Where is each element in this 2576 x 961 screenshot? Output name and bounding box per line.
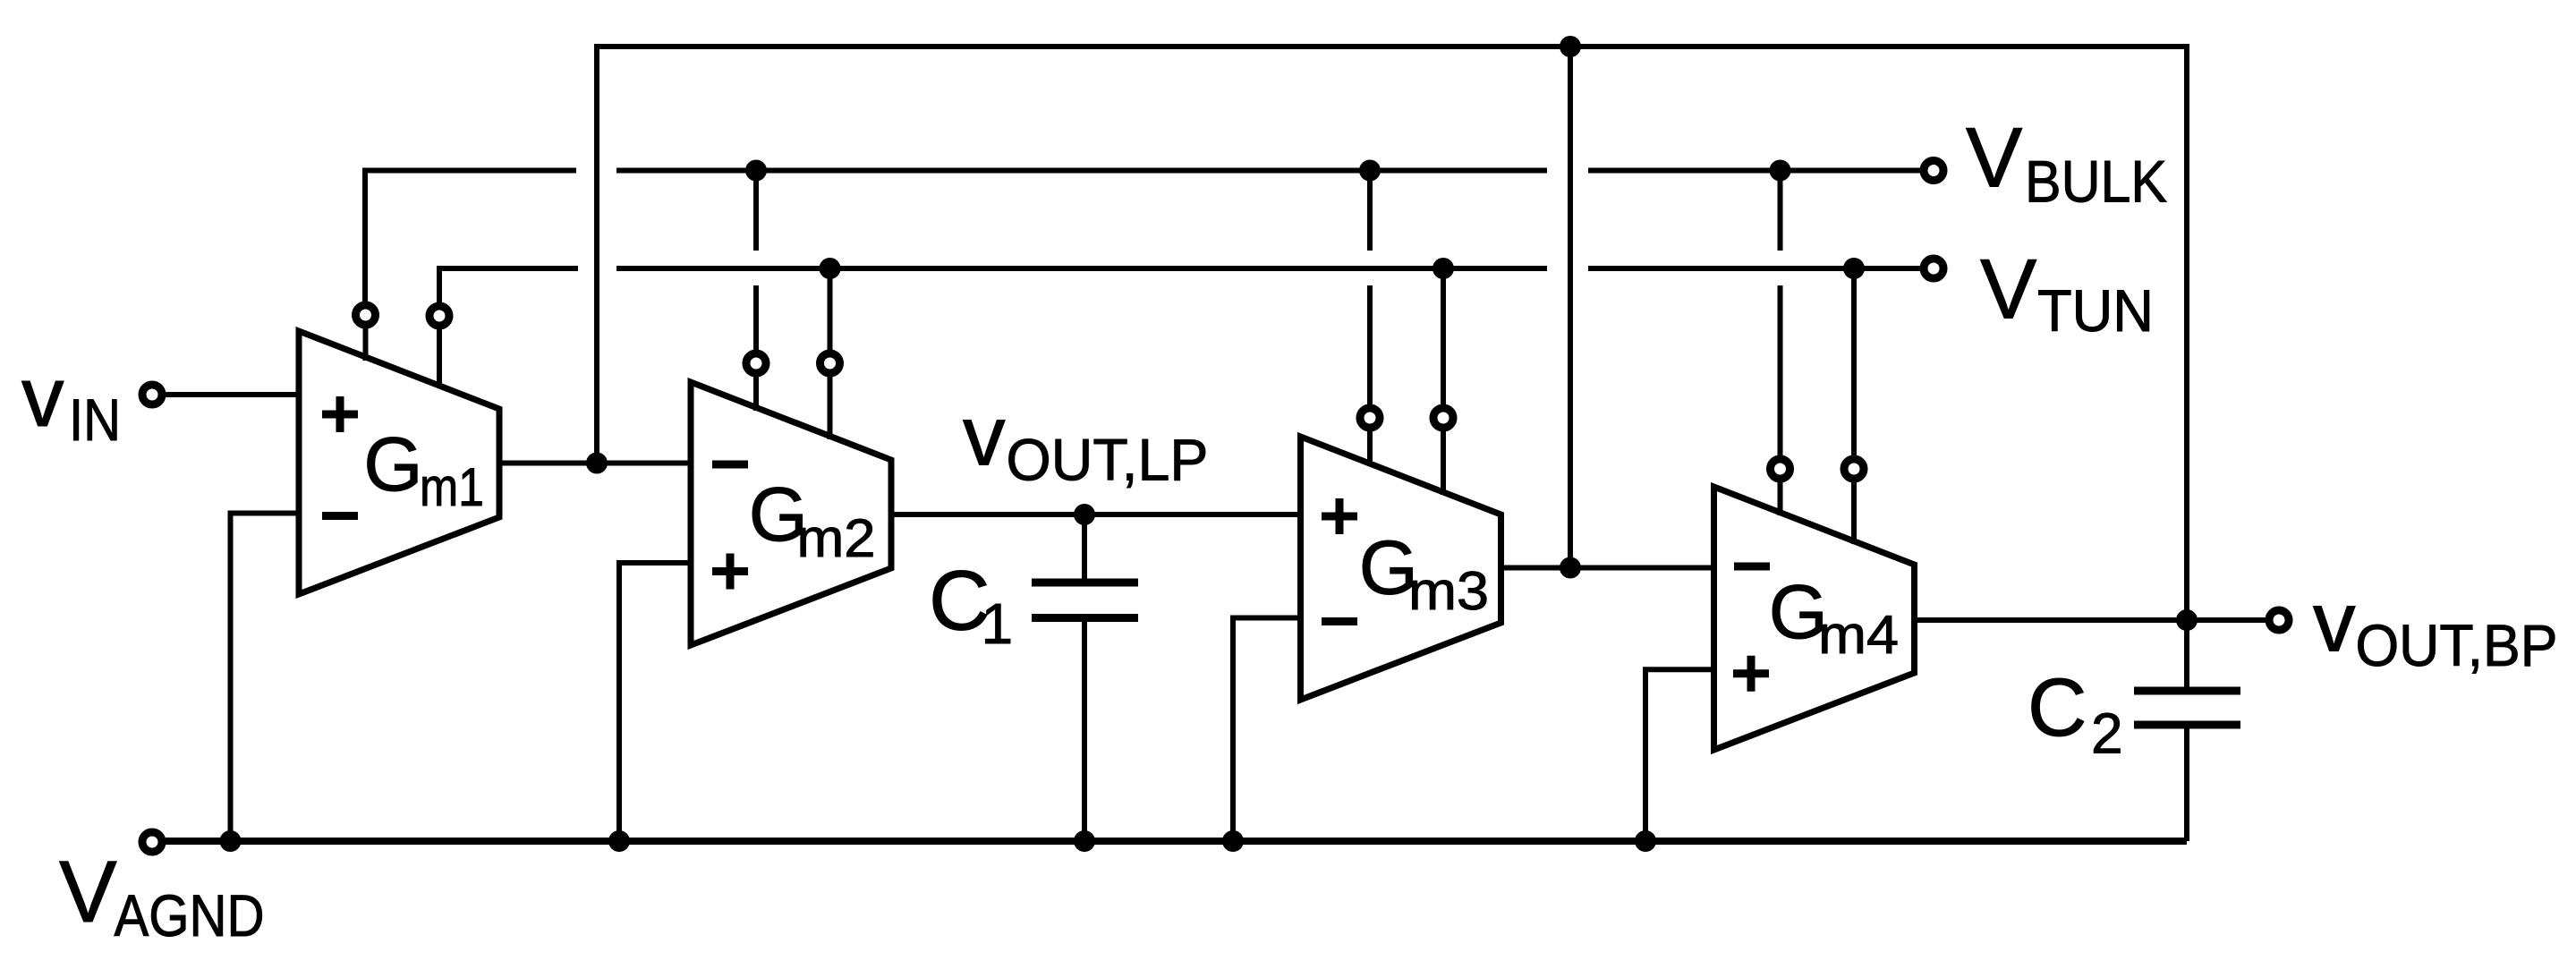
svg-text:TUN: TUN — [2037, 277, 2154, 344]
Gm3 - input mark — [1322, 617, 1357, 625]
wire: Gm4 tune pin riser from VTUN — [1851, 268, 1857, 471]
junction: VBULK / Gm3 bulk riser — [1359, 160, 1381, 182]
Gm4 bulk pin circle — [1771, 459, 1790, 479]
Gm1 bulk pin circle — [356, 305, 376, 325]
junction: top line to Gm3 output riser — [1560, 36, 1581, 57]
svg-text:v: v — [963, 389, 1006, 484]
wire: Gm4 + input feedback from VAGND bus — [1645, 669, 1716, 841]
Gm4 tune pin circle — [1844, 459, 1864, 479]
svg-text:V: V — [1980, 242, 2036, 337]
svg-text:1: 1 — [982, 591, 1014, 656]
terminal: VAGND — [142, 832, 162, 852]
Gm2 + input mark — [712, 554, 748, 590]
wire: Gm2 + input feedback from VAGND bus — [619, 563, 693, 841]
wire: Gm2 tune pin riser from VTUN — [828, 268, 833, 364]
Gm3 tune pin circle — [1433, 408, 1453, 428]
wire: VBULK bus (y=190.5) with hops at x=667 and x=1755 — [365, 171, 1920, 317]
wire: top feedback line from node vOUT,BP to Gm1 output — [597, 47, 2187, 620]
Gm4 - input mark — [1734, 563, 1770, 571]
junction: VTUN / Gm4 tune riser — [1843, 258, 1865, 279]
junction: VTUN / Gm2 tune riser — [820, 258, 841, 279]
svg-text:m2: m2 — [797, 508, 876, 568]
svg-text:m1: m1 — [420, 457, 484, 517]
svg-text:v: v — [2313, 575, 2356, 670]
wire: Gm4 output to vOUT,BP terminal — [1915, 617, 2266, 623]
Gm1 - input mark — [322, 512, 358, 520]
Gm2 bulk pin circle — [746, 353, 766, 373]
Gm2 tune pin circle — [820, 353, 840, 373]
wire: VAGND bottom bus — [166, 838, 2187, 845]
svg-text:AGND: AGND — [115, 882, 265, 948]
wire: Gm2 output to Gm3 + input (node vOUT,LP) — [893, 512, 1303, 517]
wire: Gm1 tune pin riser to VTUN corner — [437, 268, 442, 317]
op-amp Gm2 body — [691, 353, 891, 645]
junction: VAGND / Gm1 feedback — [220, 830, 242, 852]
svg-text:2: 2 — [2091, 702, 2123, 766]
Gm3 bulk pin circle — [1360, 408, 1380, 428]
junction: Gm1 output node — [586, 453, 608, 474]
wire: riser from top line down to Gm3 output — [1568, 47, 1573, 568]
svg-text:OUT,BP: OUT,BP — [2356, 612, 2558, 678]
op-amp Gm4 body — [1714, 459, 1915, 750]
Gm3 + input mark — [1322, 498, 1357, 534]
svg-text:m4: m4 — [1818, 605, 1899, 665]
wire: Gm4 bulk pin riser from VBULK (hop over VTUN) — [1778, 171, 1783, 471]
junction: VTUN / Gm3 tune riser — [1433, 258, 1454, 279]
svg-text:V: V — [59, 843, 117, 940]
svg-text:IN: IN — [69, 387, 121, 453]
op-amp Gm1 body — [299, 304, 499, 594]
wire: C1 top lead from node vOUT,LP — [1082, 515, 1087, 583]
wire: Gm3 bulk pin riser from VBULK (hop over VTUN) — [1367, 171, 1373, 420]
terminal: vOUT,BP — [2269, 610, 2289, 630]
junction: VBULK / Gm4 bulk riser — [1770, 160, 1791, 182]
wire: Gm1 - input feedback from VAGND bus — [231, 514, 302, 842]
terminal: VBULK — [1924, 161, 1943, 181]
junction: VAGND / Gm3 feedback — [1222, 830, 1244, 852]
Gm1 tune pin circle — [429, 306, 449, 326]
wire: Gm1 bulk pin riser to VBULK corner (drawn with bus) — [362, 309, 368, 317]
Gm1 + input mark — [322, 396, 358, 432]
wire: vIN input to Gm1 + input — [164, 392, 302, 397]
junction: VAGND / C1 bottom — [1074, 830, 1095, 852]
op-amp Gm3 body — [1301, 408, 1501, 700]
svg-text:G: G — [363, 422, 422, 507]
svg-text:C: C — [2028, 662, 2087, 753]
terminal: vIN — [142, 385, 162, 404]
junction: VAGND / Gm4 feedback — [1635, 830, 1656, 852]
wire: Gm1 output to Gm2 - input — [498, 461, 693, 466]
junction: node vOUT,LP at C1 tap — [1074, 504, 1095, 525]
svg-text:V: V — [1966, 111, 2022, 206]
svg-text:BULK: BULK — [2025, 149, 2167, 215]
Gm2 - input mark — [712, 461, 748, 469]
wire: Gm3 - input feedback from VAGND bus — [1233, 618, 1303, 842]
wire: C2 top lead from node vOUT,BP — [2184, 620, 2189, 691]
wire: Gm2 bulk pin riser from VBULK (hop over VTUN) — [753, 171, 759, 364]
capacitor C1 plates — [1032, 583, 1138, 618]
wire: VTUN bus (y=300) with hops at x=667 and x=1755 — [439, 268, 1920, 316]
junction: node vOUT,BP at C2/feedback — [2176, 609, 2198, 631]
svg-text:OUT,LP: OUT,LP — [1007, 427, 1209, 493]
wire: C1 bottom lead to VAGND bus — [1082, 618, 1087, 842]
wire: C2 bottom lead to VAGND bus corner — [2184, 725, 2189, 841]
svg-text:m3: m3 — [1408, 561, 1489, 621]
wire: Gm3 tune pin riser from VTUN — [1441, 268, 1446, 419]
wire: Gm3 output to Gm4 - input — [1501, 566, 1716, 571]
Gm4 + input mark — [1733, 656, 1769, 692]
junction: Gm3 output node — [1560, 557, 1581, 579]
capacitor C2 plates — [2134, 691, 2240, 725]
svg-text:v: v — [21, 350, 64, 445]
junction: VBULK / Gm2 bulk riser — [745, 160, 767, 182]
terminal: VTUN — [1924, 259, 1943, 278]
junction: VAGND / Gm2 feedback — [608, 830, 630, 852]
